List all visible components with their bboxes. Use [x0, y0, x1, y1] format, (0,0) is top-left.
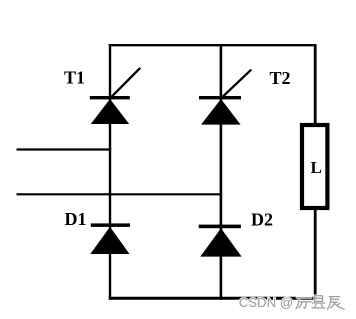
- svg-text:CSDN @: CSDN @: [239, 295, 294, 310]
- svg-text:D1: D1: [65, 209, 87, 229]
- svg-text:D2: D2: [251, 210, 273, 230]
- svg-text:L: L: [311, 158, 322, 177]
- svg-text:T2: T2: [270, 68, 291, 88]
- svg-text:T1: T1: [64, 68, 85, 88]
